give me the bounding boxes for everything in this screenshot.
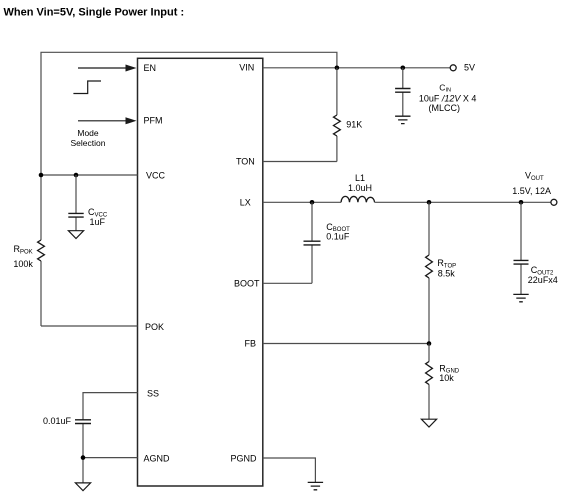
resistor RPOK <box>38 240 45 261</box>
wire BOOT <box>263 282 312 284</box>
wire FB <box>263 343 429 345</box>
wire POK <box>41 325 138 327</box>
wire top rail VIN to left rail <box>41 52 337 326</box>
wire SS <box>83 393 138 420</box>
svg-text:8.5k: 8.5k <box>438 268 456 278</box>
resistor 91K <box>334 115 341 136</box>
EN input arrow <box>78 65 137 72</box>
wire COUT2 stem <box>520 202 522 294</box>
wire LX to L1 <box>263 201 341 203</box>
svg-text:SS: SS <box>147 388 159 398</box>
PFM input arrow <box>78 117 137 124</box>
svg-text:1.5V, 12A: 1.5V, 12A <box>512 186 551 196</box>
node AGND junction <box>81 455 86 460</box>
svg-text:When Vin=5V, Single Power Inpu: When Vin=5V, Single Power Input : <box>4 7 185 19</box>
wire VIN to 5V <box>263 67 450 69</box>
resistor RTOP <box>426 255 433 278</box>
ground CIN <box>395 116 410 123</box>
inductor L1 <box>341 196 374 202</box>
svg-text:1.0uH: 1.0uH <box>348 183 372 193</box>
wire CBOOT stem <box>311 202 313 283</box>
wire VCC <box>41 174 138 176</box>
svg-text:AGND: AGND <box>144 453 171 463</box>
node RTOP tap junction <box>427 200 432 205</box>
svg-text:VIN: VIN <box>239 62 254 72</box>
capacitor CBOOT <box>304 241 321 245</box>
svg-text:EN: EN <box>144 63 157 73</box>
capacitor CVCC <box>68 213 83 217</box>
svg-text:PGND: PGND <box>230 453 257 463</box>
ground CVCC <box>68 231 83 239</box>
node FB junction <box>427 341 432 346</box>
capacitor COUT2 <box>514 260 529 264</box>
svg-text:TON: TON <box>236 156 255 166</box>
IC U1 body <box>138 58 263 486</box>
step waveform symbol <box>73 81 101 94</box>
wire TON <box>263 161 337 163</box>
svg-text:5V: 5V <box>464 63 475 73</box>
wire SS cap to AGND <box>82 423 84 483</box>
svg-text:FB: FB <box>244 339 256 349</box>
svg-text:100k: 100k <box>13 259 33 269</box>
wire L1 to VOUT <box>375 201 551 203</box>
svg-text:PFM: PFM <box>144 116 163 126</box>
wire 91K branch <box>336 68 338 162</box>
terminal VOUT <box>551 199 557 205</box>
ground AGND <box>75 483 90 491</box>
terminal 5V <box>450 65 456 71</box>
svg-text:L1: L1 <box>355 173 365 183</box>
node COUT2 tap junction <box>519 200 524 205</box>
node CBOOT tap junction <box>310 200 315 205</box>
resistor RGND <box>426 362 433 385</box>
svg-text:0.1uF: 0.1uF <box>326 232 350 242</box>
svg-text:91K: 91K <box>346 120 362 130</box>
ground COUT2 <box>513 294 528 301</box>
svg-text:BOOT: BOOT <box>234 278 260 288</box>
wire CIN stem <box>402 68 404 116</box>
svg-text:1uF: 1uF <box>90 217 106 227</box>
capacitor CSS 0.01uF <box>75 420 91 424</box>
node CVCC tap junction <box>74 173 79 178</box>
svg-text:(MLCC): (MLCC) <box>429 103 461 113</box>
wire AGND <box>83 457 138 459</box>
node rail-VCC junction <box>39 173 44 178</box>
node CIN tap junction <box>401 66 406 71</box>
svg-text:LX: LX <box>240 198 251 208</box>
wire RTOP stem <box>428 202 430 343</box>
svg-text:POK: POK <box>145 322 164 332</box>
svg-text:0.01uF: 0.01uF <box>43 416 72 426</box>
svg-text:22uFx4: 22uFx4 <box>528 275 558 285</box>
wire RGND stem <box>428 344 430 420</box>
wire PGND <box>263 458 316 482</box>
svg-text:VCC: VCC <box>146 170 166 180</box>
svg-text:10k: 10k <box>439 373 454 383</box>
svg-text:Mode: Mode <box>77 128 99 138</box>
svg-text:Selection: Selection <box>71 138 106 148</box>
node VIN 91K junction <box>335 66 340 71</box>
capacitor CIN <box>395 89 410 93</box>
wire CVCC stem <box>75 175 77 231</box>
ground RGND <box>421 419 436 427</box>
ground PGND <box>308 482 323 489</box>
